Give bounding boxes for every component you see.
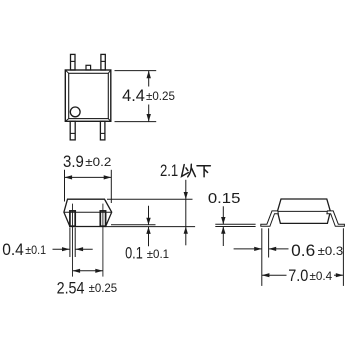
dim 4.4 down arrowhead bbox=[147, 114, 151, 122]
dim 4.4 lower shaft bbox=[148, 105, 150, 122]
front view body hexagon bbox=[64, 199, 112, 226]
svg-text:2.1: 2.1 bbox=[160, 162, 178, 180]
dim 2.54 dimension line bbox=[73, 270, 103, 272]
dim 0.6 right extension line bbox=[268, 228, 270, 257]
svg-text:0.6: 0.6 bbox=[291, 242, 315, 260]
dim 0.6 right-pointing arrowhead bbox=[254, 247, 262, 251]
dim 0.4 right-pointing arrowhead bbox=[62, 247, 70, 251]
seating plane extension line bbox=[106, 226, 196, 228]
dim 3.9 left arrowhead bbox=[65, 175, 73, 179]
dim 0.15 lower shaft bbox=[222, 227, 224, 247]
front view left lead rect bbox=[70, 211, 75, 226]
dim 2.54 left arrowhead bbox=[73, 269, 81, 273]
left lead edge below body (left) bbox=[69, 228, 71, 258]
pin 2 (bottom-right lead, top view) bbox=[100, 121, 105, 140]
pin 3 (top-right lead, top view) bbox=[101, 54, 105, 70]
dim 0.4 left-pointing arrowhead bbox=[76, 247, 84, 251]
dim 0.1 lower shaft bbox=[148, 227, 150, 247]
svg-text:±0.25: ±0.25 bbox=[89, 281, 118, 295]
left lead edge below body (right) bbox=[74, 228, 76, 258]
svg-text:±0.1: ±0.1 bbox=[147, 247, 170, 261]
dim 0.15 upper parallel line bbox=[215, 223, 255, 225]
dim 4.4 upper shaft bbox=[148, 71, 150, 87]
svg-text:±0.1: ±0.1 bbox=[25, 243, 46, 257]
pin 2 lead bend line bbox=[100, 132, 105, 134]
side view body hexagon bbox=[277, 199, 330, 223]
svg-text:3.9: 3.9 bbox=[63, 153, 84, 171]
svg-text:4.4: 4.4 bbox=[122, 87, 145, 105]
dim 0.15 lower parallel line bbox=[215, 226, 255, 228]
dim 7.0 right line segment bbox=[334, 274, 343, 276]
front view right lead rect bbox=[100, 211, 105, 226]
dim 3.9 right arrowhead bbox=[104, 175, 112, 179]
pin 4 lead bend line bbox=[71, 60, 76, 62]
front view mold parting line bbox=[64, 211, 112, 213]
package top view: inner body rect bbox=[69, 73, 109, 118]
dim 0.6 left-pointing arrowhead bbox=[269, 247, 277, 251]
body top extension line (2.1 dim) bbox=[107, 198, 193, 200]
dim 0.1 up arrowhead bbox=[146, 227, 150, 234]
dim 2.54 right arrowhead bbox=[95, 269, 103, 273]
dim 0.15 up arrowhead bbox=[221, 227, 225, 234]
bevel diagonal bottom-left bbox=[65, 119, 68, 122]
front view left lead centerline bbox=[72, 204, 74, 277]
side view right gull-wing lead bbox=[327, 211, 345, 226]
pin 1 (bottom-left lead, top view) bbox=[70, 121, 75, 140]
dim 4.4 up arrowhead bbox=[147, 71, 151, 79]
front view right lead centerline bbox=[102, 204, 104, 277]
svg-text:0.1: 0.1 bbox=[125, 245, 143, 263]
dim 4.4 top extension line bbox=[115, 70, 157, 72]
dim 0.15 down arrowhead bbox=[221, 217, 225, 224]
svg-text:±0.2: ±0.2 bbox=[85, 155, 111, 169]
lead tip extension line bbox=[111, 224, 156, 226]
pin-1 indicator circle bbox=[70, 107, 80, 117]
kanji 以 bbox=[182, 164, 196, 177]
dim 7.0 right arrowhead bbox=[336, 273, 344, 277]
dim 2.1 down arrowhead bbox=[184, 192, 188, 199]
dim 4.4 bottom extension line bbox=[115, 121, 157, 123]
dim 3.9 dimension line bbox=[65, 176, 112, 178]
dim 2.1 up arrowhead bbox=[184, 227, 188, 234]
dim 7.0 left arrowhead bbox=[262, 273, 270, 277]
dim 0.6 right arrow tail bbox=[269, 248, 289, 250]
dim 0.6 left extension line bbox=[261, 228, 263, 286]
side view left gull-wing lead bbox=[261, 211, 279, 226]
dim 2.1 shaft bbox=[185, 180, 187, 246]
dim 3.9 left extension line bbox=[64, 170, 66, 202]
dim 0.6 left arrow tail bbox=[234, 248, 262, 250]
bevel diagonal top-left bbox=[65, 70, 68, 73]
dim 0.4 right arrow tail bbox=[76, 248, 93, 250]
pin 3 lead bend line bbox=[101, 60, 105, 62]
side view mold parting line bbox=[277, 210, 330, 212]
dim 3.9 right extension line bbox=[110, 170, 112, 203]
svg-text:7.0: 7.0 bbox=[288, 267, 308, 285]
dim 7.0 left line segment bbox=[262, 274, 287, 276]
kanji 下 bbox=[197, 166, 210, 177]
svg-text:0.15: 0.15 bbox=[208, 190, 241, 207]
pin 4 (top-left lead, top view) bbox=[71, 54, 76, 70]
svg-text:±0.25: ±0.25 bbox=[146, 89, 175, 103]
dim 7.0 right extension line bbox=[342, 228, 344, 286]
svg-text:0.4: 0.4 bbox=[2, 241, 24, 259]
pin 1 lead bend line bbox=[70, 132, 75, 134]
bevel diagonal top-right bbox=[108, 70, 111, 73]
svg-text:±0.3: ±0.3 bbox=[318, 244, 344, 258]
svg-text:2.54: 2.54 bbox=[57, 279, 85, 297]
dim 0.4 left arrow tail bbox=[53, 248, 70, 250]
svg-text:±0.4: ±0.4 bbox=[310, 269, 333, 283]
dim 0.1 down arrowhead bbox=[146, 218, 150, 225]
index notch at top center bbox=[86, 65, 91, 70]
bevel diagonal bottom-right bbox=[108, 119, 111, 122]
dim 0.1 upper shaft bbox=[148, 206, 150, 225]
package top view: outer body rect bbox=[65, 70, 111, 121]
dim 0.15 upper shaft bbox=[222, 206, 224, 224]
